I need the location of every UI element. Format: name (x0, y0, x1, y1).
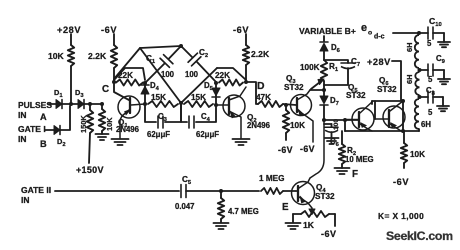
ground (under 10K) (96, 133, 109, 135)
wire: +28V to collector rail (392, 61, 401, 100)
transistor Q1 2N496 (118, 96, 140, 118)
wire: D2 up to pulse line (61, 106, 71, 130)
wire: output line (393, 32, 419, 34)
node: 4.7MEG tap (219, 189, 223, 193)
wire: gate I input line (45, 129, 54, 131)
inductor 6H (top) (415, 35, 419, 68)
wire: bottom rail (345, 130, 419, 132)
wire: D1 to D3 (62, 103, 78, 105)
wire: cross diagonal left (140, 48, 181, 103)
wire: loop over 22K right (217, 68, 246, 80)
transistor Q4 ST32 (292, 182, 315, 205)
svg-text:+28V: +28V (367, 57, 391, 67)
node: D5/Q2 base junction (214, 103, 218, 107)
svg-text:VARIABLE B+: VARIABLE B+ (299, 26, 356, 36)
wire: cross diagonal right (181, 68, 217, 103)
node: D4/15K junction (143, 102, 147, 106)
svg-text:IN: IN (18, 110, 27, 120)
node: 10K tap at Q3 base (284, 103, 288, 107)
wire: C5 to 1 MEG (186, 190, 259, 192)
svg-text:62μμF: 62μμF (196, 130, 219, 139)
svg-text:1 MEG: 1 MEG (259, 174, 284, 183)
resistor 22K (left) (116, 80, 143, 86)
wire: collector rail (372, 100, 403, 102)
svg-text:PULSES: PULSES (18, 100, 52, 110)
ground (C6) (325, 137, 339, 139)
potentiometer 1K (293, 213, 301, 215)
wire: top horizontal (140, 46, 181, 48)
svg-text:K= X 1,000: K= X 1,000 (378, 211, 424, 221)
svg-text:e: e (361, 22, 367, 34)
resistor 22K (right) (219, 80, 243, 86)
wire: loop over 22K (114, 68, 145, 80)
wire: 1K right to -6V (334, 214, 336, 226)
wire: D3 to Q1 area (84, 103, 102, 105)
capacitor C10 (5) (419, 32, 428, 34)
capacitor C9 (5) (420, 69, 428, 71)
capacitor C4 62uuF (181, 105, 187, 122)
svg-text:IN: IN (18, 134, 27, 144)
diode D1 (56, 100, 62, 109)
wire: 2.2K to node C (113, 68, 115, 82)
node: Q5 base node (322, 118, 326, 122)
wire: +28V supply lead (top left) (70, 34, 72, 45)
svg-text:5: 5 (428, 75, 433, 84)
node: center junction (179, 101, 183, 105)
svg-text:100: 100 (333, 119, 340, 130)
svg-text:SeekIC.com: SeekIC.com (386, 229, 453, 243)
resistor 47K (258, 101, 283, 107)
diode D4 (144, 84, 146, 104)
svg-text:10K: 10K (48, 51, 65, 61)
svg-text:IN: IN (21, 195, 30, 205)
svg-text:-6V: -6V (321, 229, 337, 239)
capacitor C3 62uuF (145, 106, 156, 122)
svg-text:GATE II: GATE II (21, 185, 51, 195)
wire: node C to Q1 base (114, 84, 129, 100)
wire: gate II line (55, 190, 179, 192)
wire: pulses input line (49, 103, 56, 105)
svg-text:5: 5 (428, 108, 433, 117)
node: top junction (179, 44, 183, 48)
diode D2 (54, 126, 60, 135)
svg-text:GATE I: GATE I (18, 124, 46, 134)
diode D3 (78, 100, 84, 109)
resistor 10K (from +28V to pulse line) (68, 45, 74, 66)
wire: 1 MEG to Q4 base (283, 190, 296, 192)
svg-text:100: 100 (161, 70, 175, 79)
svg-text:2N496: 2N496 (247, 121, 271, 130)
node: output top (417, 31, 421, 35)
svg-text:B: B (40, 139, 47, 149)
svg-text:6H: 6H (405, 43, 414, 52)
wire: -6V lead right (245, 34, 247, 45)
transistor Q5 ST32 (352, 108, 374, 130)
wire: node D to 47K (246, 82, 258, 104)
transistor Q3 ST32 (291, 95, 312, 116)
node: C8 tap (418, 95, 422, 99)
node: D7 top (322, 88, 326, 92)
svg-text:2.2K: 2.2K (88, 51, 107, 61)
svg-text:15K: 15K (191, 93, 206, 102)
node: D4 junction (143, 81, 147, 85)
svg-text:10K: 10K (105, 117, 114, 131)
node: Q2 collector node (244, 80, 248, 84)
ground (C9) (438, 78, 450, 80)
svg-text:15K: 15K (151, 93, 166, 102)
resistor 15K (right) (184, 101, 213, 107)
svg-text:150K: 150K (79, 115, 88, 133)
transistor Q6 ST32 (383, 106, 405, 128)
ground (4.7 MEG) (214, 222, 229, 224)
svg-text:ST32: ST32 (315, 192, 335, 201)
wire: R1 wiper arrow (311, 82, 320, 89)
node: 10K tap (100, 102, 104, 106)
svg-text:-6V: -6V (393, 177, 409, 187)
svg-text:2.2K: 2.2K (251, 49, 270, 59)
diode D6 (320, 41, 328, 43)
node: rail tap (343, 118, 347, 122)
potentiometer R1 100K (321, 60, 327, 81)
svg-text:E: E (282, 202, 289, 213)
wire: rail to base node riser (344, 120, 346, 131)
svg-text:d-c: d-c (374, 34, 385, 41)
capacitor C5 0.047 (180, 185, 182, 198)
svg-text:100: 100 (185, 70, 199, 79)
node: D5 junction (214, 81, 218, 85)
wire: node C diagonal up (114, 48, 140, 79)
svg-text:ST32: ST32 (346, 91, 366, 100)
wire: R1 bottom to D7 node (323, 81, 325, 90)
wire: right vertical to bottom rail (402, 101, 404, 131)
svg-text:+150V: +150V (76, 165, 104, 175)
svg-text:47K: 47K (256, 93, 271, 102)
diode D7 (323, 90, 325, 96)
resistor 10K (Q3 base to -6V) (285, 107, 287, 110)
node: 150K tap (88, 102, 92, 106)
wire: Q3 collector to R1/D7 node (310, 89, 324, 91)
svg-text:D: D (257, 81, 265, 92)
inductor 6H (middle) (415, 72, 419, 95)
capacitor C8 (5) (420, 96, 428, 98)
ground (Q1 emitter) (112, 138, 129, 140)
svg-text:10K: 10K (290, 121, 305, 130)
svg-text:10K: 10K (410, 150, 425, 159)
node: C9 tap (418, 68, 422, 72)
inductor 6H (bottom) (415, 99, 419, 129)
svg-text:1K: 1K (303, 220, 315, 230)
diode D5 (215, 84, 217, 104)
resistor 150K (to +150V) (89, 104, 91, 110)
capacitor C6 (100) (324, 123, 332, 125)
wire: 47K to Q3 base (283, 104, 296, 105)
resistor 4.7 MEG to ground (220, 193, 222, 198)
capacitor C7 (324, 60, 348, 63)
svg-text:-6V: -6V (233, 25, 249, 35)
resistor 10K (rail to -6V) (403, 131, 405, 143)
svg-text:-6V: -6V (278, 145, 293, 155)
svg-text:100K: 100K (300, 63, 320, 72)
svg-text:ST32: ST32 (284, 83, 304, 92)
node: emitter rail junction (401, 129, 405, 133)
ground (C8) (437, 105, 449, 107)
wire: 10K to pulse line node (70, 66, 72, 103)
resistor 15K (left) (148, 101, 178, 107)
svg-text:-6V: -6V (101, 25, 117, 35)
capacitor C1 (diagonal, 100) (169, 46, 181, 59)
svg-text:F: F (352, 169, 358, 180)
node: junction 10K/D1/D2 (69, 102, 73, 106)
ground (C10) (438, 41, 450, 43)
svg-text:10 MEG: 10 MEG (345, 155, 374, 164)
resistor 2.2K (right collector load) (243, 45, 249, 65)
svg-text:A: A (40, 112, 47, 122)
resistor 2.2K (left collector load) (111, 45, 117, 68)
wire: -6V lead (113, 34, 115, 45)
wire: riser to Q4 collector (310, 121, 324, 178)
wire: base wire to Q5 (324, 119, 359, 121)
svg-text:22K: 22K (215, 71, 230, 80)
svg-text:ST32: ST32 (377, 85, 397, 94)
capacitor C2 (diagonal, 100) (181, 46, 193, 58)
resistor 1 MEG (261, 188, 283, 194)
ground (R2) with F label (335, 167, 350, 169)
wire: B+ lead (323, 36, 325, 41)
svg-text:+28V: +28V (57, 25, 81, 35)
wire: 2.2K to node D (245, 65, 247, 82)
svg-text:6H: 6H (421, 120, 431, 129)
svg-text:6H: 6H (405, 75, 414, 84)
svg-text:C: C (102, 84, 109, 95)
svg-text:-6V: -6V (300, 144, 315, 154)
svg-text:5: 5 (427, 39, 432, 48)
node: +28V/collector junction (401, 99, 405, 103)
transistor Q2 2N496 (223, 95, 245, 117)
svg-text:62μμF: 62μμF (147, 130, 170, 139)
wire: rail tap to Q6 base (374, 101, 376, 119)
svg-text:0.047: 0.047 (175, 202, 195, 211)
svg-text:o: o (368, 30, 372, 37)
ground (Q2 emitter) (233, 138, 250, 140)
svg-text:4.7 MEG: 4.7 MEG (228, 207, 259, 216)
svg-text:2N496: 2N496 (116, 125, 140, 134)
node C (112, 80, 116, 84)
resistor 10K (pulse line to ground) (101, 104, 103, 109)
resistor R2 10 MEG (341, 131, 343, 144)
ground (1K left) (292, 214, 294, 222)
